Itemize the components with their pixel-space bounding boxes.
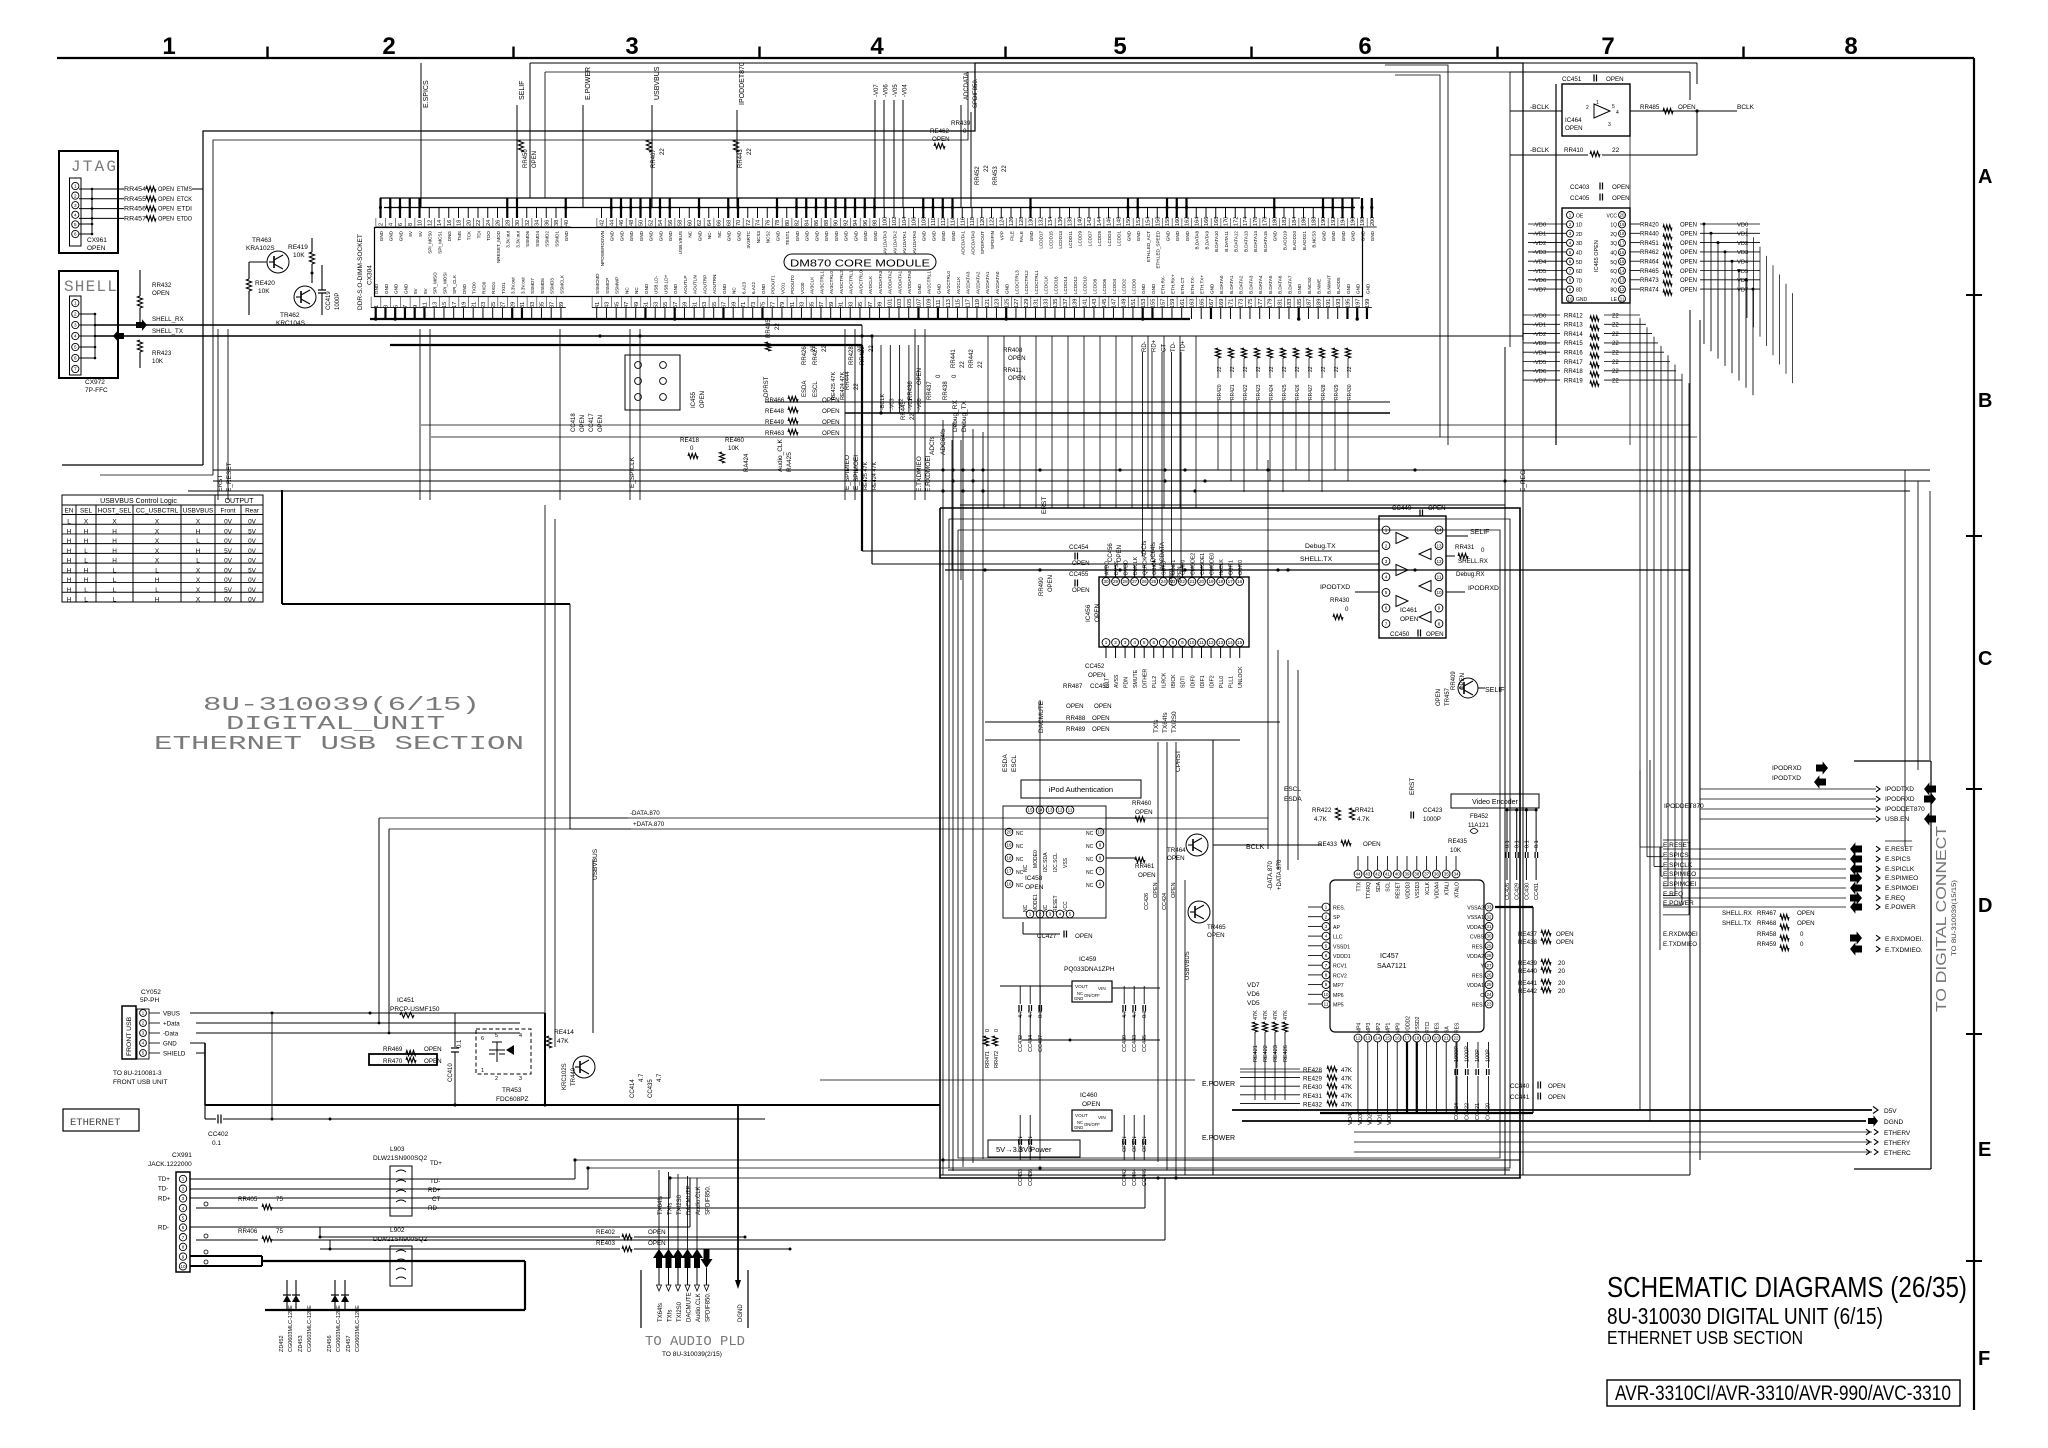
svg-text:141: 141 bbox=[1082, 299, 1088, 308]
svg-text:53: 53 bbox=[653, 302, 659, 308]
svg-text:40: 40 bbox=[564, 220, 570, 226]
svg-text:RE420: RE420 bbox=[255, 280, 275, 287]
svg-text:E.POWER: E.POWER bbox=[1202, 1081, 1235, 1088]
svg-text:NC: NC bbox=[1043, 904, 1049, 912]
svg-text:22: 22 bbox=[1612, 341, 1619, 347]
svg-text:4: 4 bbox=[1385, 574, 1388, 579]
svg-text:OPEN: OPEN bbox=[424, 1058, 442, 1065]
svg-text:IMCLK: IMCLK bbox=[1219, 559, 1225, 575]
svg-text:GND: GND bbox=[1029, 230, 1034, 241]
svg-text:1: 1 bbox=[1596, 100, 1599, 106]
svg-text:VD0: VD0 bbox=[1737, 222, 1748, 228]
svg-text:3: 3 bbox=[1385, 559, 1388, 564]
svg-text:122: 122 bbox=[990, 217, 996, 226]
svg-text:41: 41 bbox=[1385, 872, 1391, 877]
svg-text:84: 84 bbox=[804, 220, 810, 226]
svg-text:IC459: IC459 bbox=[1079, 956, 1097, 963]
svg-text:20: 20 bbox=[1199, 579, 1205, 584]
svg-text:GND: GND bbox=[1346, 283, 1351, 294]
transistor TR440 KRC102S bbox=[573, 1056, 595, 1078]
svg-text:DACMUTE: DACMUTE bbox=[687, 1292, 693, 1322]
svg-text:178: 178 bbox=[1263, 217, 1269, 226]
svg-text:18: 18 bbox=[1620, 231, 1625, 236]
svg-text:RR406: RR406 bbox=[238, 1228, 258, 1235]
svg-text:AV1DATA3: AV1DATA3 bbox=[883, 231, 888, 254]
svg-text:MP0: MP0 bbox=[1396, 1023, 1402, 1034]
svg-text:CX304: CX304 bbox=[367, 265, 374, 285]
svg-text:166: 166 bbox=[1204, 217, 1210, 226]
table USBVBUS Control Logic bbox=[62, 495, 263, 602]
svg-text:NC: NC bbox=[1023, 904, 1029, 912]
capacitor CC402 0.1 bbox=[217, 1115, 219, 1124]
svg-text:OPEN: OPEN bbox=[1092, 715, 1110, 722]
svg-text:43: 43 bbox=[605, 302, 611, 308]
svg-text:AVDDATA3: AVDDATA3 bbox=[878, 270, 883, 294]
svg-text:NC: NC bbox=[1016, 883, 1024, 889]
ic IC455 OPEN bbox=[625, 355, 680, 410]
wire center vertical bundle bbox=[942, 420, 944, 1175]
svg-text:E.SPIMIEO: E.SPIMIEO bbox=[1885, 875, 1918, 882]
svg-text:28: 28 bbox=[1123, 579, 1129, 584]
svg-text:0.1: 0.1 bbox=[457, 1039, 463, 1048]
svg-text:42: 42 bbox=[1375, 872, 1381, 877]
svg-text:TXD1: TXD1 bbox=[501, 282, 506, 294]
svg-text:-BCLK: -BCLK bbox=[1530, 147, 1550, 154]
svg-text:130: 130 bbox=[1029, 217, 1035, 226]
svg-text:2: 2 bbox=[382, 33, 395, 60]
svg-text:4: 4 bbox=[1616, 110, 1619, 116]
svg-text:14: 14 bbox=[1228, 640, 1234, 645]
svg-text:-DATA.870: -DATA.870 bbox=[630, 810, 660, 817]
svg-text:GND: GND bbox=[1370, 230, 1375, 241]
svg-text:29: 29 bbox=[510, 302, 516, 308]
svg-text:AVDCTRL2: AVDCTRL2 bbox=[839, 270, 844, 294]
svg-text:RD+: RD+ bbox=[158, 1195, 171, 1202]
svg-text:SSMD3: SSMD3 bbox=[550, 278, 555, 294]
svg-text:0V: 0V bbox=[224, 577, 233, 584]
svg-text:ESDA: ESDA bbox=[1284, 796, 1302, 803]
svg-text:RTCI: RTCI bbox=[1425, 1021, 1431, 1033]
svg-text:33: 33 bbox=[530, 302, 536, 308]
svg-text:0: 0 bbox=[1345, 606, 1349, 613]
svg-text:102: 102 bbox=[892, 217, 898, 226]
ic IC465 OPEN latch bbox=[1562, 208, 1630, 303]
svg-text:SP: SP bbox=[1333, 915, 1340, 921]
svg-text:IPODDET870: IPODDET870 bbox=[1664, 803, 1704, 810]
svg-text:-V04: -V04 bbox=[903, 84, 909, 97]
svg-text:22: 22 bbox=[960, 361, 966, 368]
svg-text:MP4: MP4 bbox=[1356, 1023, 1362, 1034]
svg-text:RR464: RR464 bbox=[1640, 260, 1659, 266]
svg-text:5: 5 bbox=[1612, 104, 1615, 110]
svg-text:VDDA2: VDDA2 bbox=[1467, 954, 1484, 960]
svg-text:NCS3: NCS3 bbox=[756, 231, 761, 244]
net DGND down arrow bbox=[737, 1105, 739, 1280]
svg-text:OPEN: OPEN bbox=[1092, 726, 1110, 733]
svg-text:RR438: RR438 bbox=[943, 381, 949, 400]
svg-text:42: 42 bbox=[600, 220, 606, 226]
svg-text:DVDD: DVDD bbox=[1123, 560, 1129, 575]
svg-text:-VD3: -VD3 bbox=[1533, 341, 1546, 347]
svg-text:CX991: CX991 bbox=[172, 1152, 192, 1159]
svg-text:OPEN: OPEN bbox=[1008, 355, 1026, 362]
svg-text:28: 28 bbox=[505, 220, 511, 226]
svg-text:RR488: RR488 bbox=[1066, 715, 1086, 722]
svg-text:B.DATA10: B.DATA10 bbox=[1214, 231, 1219, 252]
svg-text:147: 147 bbox=[1112, 299, 1118, 308]
svg-text:4.7K: 4.7K bbox=[1314, 816, 1328, 823]
svg-text:3: 3 bbox=[1608, 122, 1611, 128]
svg-text:GND: GND bbox=[1365, 283, 1370, 294]
svg-text:MODE1: MODE1 bbox=[1033, 894, 1039, 912]
svg-text:15: 15 bbox=[1620, 259, 1625, 264]
svg-text:GND: GND bbox=[1209, 283, 1214, 294]
svg-text:VD3: VD3 bbox=[1358, 1114, 1364, 1125]
svg-text:VD1: VD1 bbox=[1737, 232, 1748, 238]
svg-text:101: 101 bbox=[887, 299, 893, 308]
svg-text:B.DATA0: B.DATA0 bbox=[1219, 275, 1224, 294]
svg-text:GND: GND bbox=[619, 230, 624, 241]
svg-text:H: H bbox=[67, 538, 72, 545]
svg-text:TO AUDIO PLD: TO AUDIO PLD bbox=[645, 1334, 745, 1350]
svg-text:LCDCTRL1: LCDCTRL1 bbox=[1034, 270, 1039, 294]
svg-text:ESCL: ESCL bbox=[1011, 755, 1018, 772]
svg-text:L: L bbox=[113, 587, 117, 594]
svg-text:3Q: 3Q bbox=[1610, 241, 1617, 247]
svg-text:ETHERNET USB SECTION: ETHERNET USB SECTION bbox=[154, 733, 524, 755]
svg-text:X: X bbox=[196, 596, 201, 603]
svg-text:H: H bbox=[84, 528, 89, 535]
svg-text:IPODRXD: IPODRXD bbox=[1885, 796, 1915, 803]
svg-text:X: X bbox=[196, 577, 201, 584]
svg-text:B.DATA8: B.DATA8 bbox=[1195, 231, 1200, 250]
svg-text:22: 22 bbox=[1612, 332, 1619, 338]
svg-text:58: 58 bbox=[678, 220, 684, 226]
svg-text:5V: 5V bbox=[248, 528, 257, 535]
svg-text:RR471: RR471 bbox=[985, 1051, 991, 1068]
svg-text:15: 15 bbox=[1237, 640, 1243, 645]
svg-text:VD4: VD4 bbox=[1348, 1113, 1354, 1125]
svg-text:137: 137 bbox=[1063, 299, 1069, 308]
svg-text:GND: GND bbox=[564, 230, 569, 241]
svg-text:80: 80 bbox=[785, 220, 791, 226]
svg-text:E.TXDMIEO.: E.TXDMIEO. bbox=[1885, 947, 1923, 954]
wire ic459 rails bbox=[1000, 985, 1072, 987]
svg-text:VSSA1: VSSA1 bbox=[1467, 915, 1484, 921]
svg-text:IBICK: IBICK bbox=[1171, 674, 1177, 688]
svg-text:20: 20 bbox=[466, 220, 472, 226]
svg-text:176: 176 bbox=[1253, 217, 1259, 226]
svg-text:E.RESET: E.RESET bbox=[1663, 842, 1691, 849]
svg-text:GND: GND bbox=[1576, 297, 1588, 303]
wire E_POWER trunk bbox=[820, 1079, 1195, 1081]
svg-text:C: C bbox=[1978, 648, 1992, 670]
svg-text:OPEN: OPEN bbox=[1088, 672, 1106, 679]
svg-text:RR435: RR435 bbox=[766, 319, 772, 338]
svg-text:OPEN: OPEN bbox=[1797, 920, 1815, 927]
wire jtag to bus bbox=[192, 188, 203, 190]
svg-text:PLL2: PLL2 bbox=[1152, 676, 1158, 688]
svg-text:157: 157 bbox=[1160, 299, 1166, 308]
svg-text:+Data: +Data bbox=[163, 1021, 180, 1028]
svg-text:IDIF1: IDIF1 bbox=[1200, 675, 1206, 688]
svg-text:H: H bbox=[84, 538, 89, 545]
svg-text:5V: 5V bbox=[413, 287, 418, 294]
svg-text:CX972: CX972 bbox=[85, 379, 105, 386]
svg-text:1: 1 bbox=[74, 301, 77, 306]
svg-text:22: 22 bbox=[984, 165, 990, 172]
wire left rail to table zone bbox=[281, 490, 283, 604]
svg-text:Audio_CLK: Audio_CLK bbox=[777, 438, 784, 472]
svg-text:22: 22 bbox=[978, 361, 984, 368]
svg-text:RA425: RA425 bbox=[786, 452, 793, 472]
svg-text:KRA102S: KRA102S bbox=[246, 245, 275, 252]
svg-text:8Q: 8Q bbox=[1610, 288, 1617, 294]
svg-text:14: 14 bbox=[437, 220, 443, 226]
svg-text:TR464: TR464 bbox=[1167, 847, 1186, 854]
svg-text:RE425 47K: RE425 47K bbox=[831, 372, 837, 400]
svg-text:149: 149 bbox=[1121, 299, 1127, 308]
svg-text:GND: GND bbox=[374, 283, 379, 294]
resistor RR432 OPEN bbox=[139, 270, 141, 296]
svg-text:43: 43 bbox=[1365, 872, 1371, 877]
svg-text:7: 7 bbox=[1601, 33, 1614, 60]
svg-text:FRONT USB UNIT: FRONT USB UNIT bbox=[113, 1079, 167, 1086]
svg-text:47K: 47K bbox=[1341, 1067, 1353, 1074]
svg-text:128: 128 bbox=[1019, 217, 1025, 226]
svg-text:AV1DATA2: AV1DATA2 bbox=[892, 231, 897, 254]
svg-text:156: 156 bbox=[1155, 217, 1161, 226]
svg-text:Front: Front bbox=[221, 508, 236, 515]
transistor TR462 KRC104S bbox=[294, 286, 316, 308]
svg-text:MP2: MP2 bbox=[1376, 1023, 1382, 1034]
svg-text:AV2CTRL0: AV2CTRL0 bbox=[946, 271, 951, 294]
wire SHELL_RX long bbox=[95, 324, 862, 326]
svg-text:B.NWE: B.NWE bbox=[1317, 279, 1322, 294]
wire debug bundle verticals bbox=[951, 440, 953, 570]
svg-text:ETHERNET: ETHERNET bbox=[70, 1117, 120, 1129]
svg-text:VOUT: VOUT bbox=[1075, 1113, 1088, 1118]
svg-text:135: 135 bbox=[1053, 299, 1059, 308]
svg-text:H: H bbox=[155, 577, 160, 584]
svg-text:LCDD14: LCDD14 bbox=[1063, 276, 1068, 294]
svg-text:0: 0 bbox=[1800, 931, 1804, 938]
svg-text:OPEN: OPEN bbox=[700, 391, 706, 408]
svg-text:FILE: FILE bbox=[1009, 231, 1014, 241]
wire vbus bbox=[190, 1012, 455, 1014]
svg-text:GND: GND bbox=[629, 230, 634, 241]
svg-text:96: 96 bbox=[863, 220, 869, 226]
svg-text:E_SPIMOEI: E_SPIMOEI bbox=[853, 455, 860, 490]
svg-text:OPEN: OPEN bbox=[158, 196, 174, 203]
svg-text:18: 18 bbox=[1414, 1036, 1420, 1041]
svg-text:OBIT1: OBIT1 bbox=[1228, 560, 1234, 575]
svg-text:RR456: RR456 bbox=[124, 206, 147, 213]
svg-text:69: 69 bbox=[731, 302, 737, 308]
svg-text:B: B bbox=[1978, 390, 1992, 412]
svg-text:E.REQ: E.REQ bbox=[1663, 891, 1683, 898]
svg-text:MP3: MP3 bbox=[1366, 1023, 1372, 1034]
svg-text:6.A23: 6.A23 bbox=[741, 282, 746, 294]
wire top loop outer bbox=[203, 63, 1523, 340]
wire esda escl erst drops to video bbox=[1277, 650, 1279, 870]
svg-text:IPODRXD: IPODRXD bbox=[1468, 585, 1499, 592]
svg-text:60: 60 bbox=[687, 220, 693, 226]
svg-text:IC461: IC461 bbox=[1400, 607, 1418, 614]
svg-text:23: 23 bbox=[1486, 1002, 1492, 1007]
svg-text:71: 71 bbox=[741, 302, 747, 308]
svg-text:134: 134 bbox=[1048, 217, 1054, 226]
svg-text:17: 17 bbox=[1006, 869, 1012, 874]
svg-text:28: 28 bbox=[1486, 953, 1492, 958]
svg-text:10K: 10K bbox=[152, 358, 164, 365]
svg-text:VDDA1: VDDA1 bbox=[1467, 983, 1484, 989]
svg-text:NC: NC bbox=[717, 230, 722, 237]
label iPod Authentication bbox=[1021, 780, 1141, 798]
svg-text:RE439: RE439 bbox=[1518, 960, 1537, 967]
svg-text:10K: 10K bbox=[293, 252, 305, 259]
svg-text:VPP: VPP bbox=[1000, 231, 1005, 240]
svg-text:LCDD2: LCDD2 bbox=[1122, 278, 1127, 294]
svg-text:13: 13 bbox=[1365, 1036, 1371, 1041]
svg-text:GND: GND bbox=[795, 230, 800, 241]
svg-text:IC451: IC451 bbox=[397, 997, 415, 1004]
svg-text:X: X bbox=[196, 587, 201, 594]
svg-text:LCDD1: LCDD1 bbox=[1117, 231, 1122, 247]
svg-text:RD-: RD- bbox=[158, 1225, 169, 1232]
svg-text:13: 13 bbox=[1047, 808, 1053, 813]
svg-text:VDDD3: VDDD3 bbox=[1405, 882, 1411, 899]
svg-text:4.7: 4.7 bbox=[639, 1073, 645, 1082]
svg-text:4: 4 bbox=[74, 212, 77, 217]
svg-text:16: 16 bbox=[1395, 1036, 1401, 1041]
svg-text:164: 164 bbox=[1194, 217, 1200, 226]
ic IC461 OPEN bbox=[1379, 516, 1446, 638]
svg-text:B.DATA2: B.DATA2 bbox=[1239, 275, 1244, 294]
svg-text:X: X bbox=[155, 528, 160, 535]
svg-text:X: X bbox=[196, 567, 201, 574]
svg-text:DGND: DGND bbox=[1884, 1119, 1903, 1126]
svg-text:VD7: VD7 bbox=[1737, 287, 1748, 293]
svg-text:RXD1: RXD1 bbox=[491, 281, 496, 294]
svg-text:GND: GND bbox=[951, 230, 956, 241]
svg-text:USB.EN: USB.EN bbox=[1885, 816, 1910, 823]
svg-text:OPEN: OPEN bbox=[1363, 841, 1381, 848]
svg-text:6.A22: 6.A22 bbox=[751, 282, 756, 294]
svg-text:GND: GND bbox=[1185, 230, 1190, 241]
svg-text:77: 77 bbox=[770, 302, 776, 308]
wire y505 bus bbox=[960, 504, 1505, 506]
svg-text:CC453: CC453 bbox=[1090, 683, 1110, 690]
svg-text:RR431: RR431 bbox=[1455, 544, 1475, 551]
svg-text:81: 81 bbox=[790, 302, 796, 308]
svg-text:RR452: RR452 bbox=[975, 166, 981, 185]
svg-text:9: 9 bbox=[1181, 640, 1184, 645]
svg-text:RR468: RR468 bbox=[1757, 920, 1777, 927]
svg-text:RR414: RR414 bbox=[1564, 332, 1583, 338]
svg-text:22: 22 bbox=[476, 220, 482, 226]
svg-text:16: 16 bbox=[447, 220, 453, 226]
svg-text:ILRCK: ILRCK bbox=[1162, 672, 1168, 688]
svg-text:124: 124 bbox=[999, 217, 1005, 226]
svg-text:47: 47 bbox=[624, 302, 630, 308]
svg-text:GND: GND bbox=[697, 230, 702, 241]
svg-text:B.DATA13: B.DATA13 bbox=[1243, 231, 1248, 252]
svg-text:OPEN: OPEN bbox=[648, 1240, 666, 1247]
svg-text:RE440: RE440 bbox=[1518, 968, 1537, 975]
svg-text:-VD2: -VD2 bbox=[1533, 332, 1546, 338]
svg-text:22: 22 bbox=[1612, 313, 1619, 319]
svg-text:8: 8 bbox=[1172, 640, 1175, 645]
svg-text:4Q: 4Q bbox=[1610, 251, 1617, 257]
wire shell pins bbox=[79, 313, 95, 315]
svg-text:17: 17 bbox=[452, 302, 458, 308]
svg-text:3V3RTC: 3V3RTC bbox=[746, 230, 751, 248]
svg-text:RR423: RR423 bbox=[1256, 384, 1262, 400]
svg-text:16: 16 bbox=[1237, 579, 1243, 584]
svg-text:RA424: RA424 bbox=[744, 453, 750, 472]
svg-text:145: 145 bbox=[1102, 299, 1108, 308]
svg-text:129: 129 bbox=[1024, 299, 1030, 308]
svg-text:1: 1 bbox=[182, 1177, 185, 1182]
svg-text:188: 188 bbox=[1311, 217, 1317, 226]
svg-text:IDIF0: IDIF0 bbox=[1190, 675, 1196, 688]
svg-text:4: 4 bbox=[519, 1033, 522, 1039]
svg-text:22: 22 bbox=[1612, 360, 1619, 366]
svg-text:186: 186 bbox=[1302, 217, 1308, 226]
svg-text:OPEN: OPEN bbox=[1565, 125, 1583, 132]
svg-text:110: 110 bbox=[931, 217, 937, 226]
wire top label drops bbox=[420, 110, 422, 207]
svg-text:OPEN: OPEN bbox=[1135, 809, 1153, 816]
svg-text:47K: 47K bbox=[1341, 1076, 1353, 1083]
svg-text:GND: GND bbox=[873, 230, 878, 241]
svg-text:3.3V.out: 3.3V.out bbox=[520, 277, 525, 294]
svg-text:VDDD2: VDDD2 bbox=[1405, 1016, 1411, 1033]
svg-text:ESDA: ESDA bbox=[1002, 754, 1009, 772]
svg-text:E.TXDMIEO: E.TXDMIEO bbox=[1663, 941, 1697, 948]
svg-text:13: 13 bbox=[1218, 640, 1224, 645]
svg-text:AVDDATA1: AVDDATA1 bbox=[897, 270, 902, 294]
svg-text:40: 40 bbox=[1395, 872, 1401, 877]
wire +data bbox=[196, 1022, 520, 1024]
svg-text:75: 75 bbox=[276, 1228, 283, 1235]
svg-text:VDDA3: VDDA3 bbox=[1467, 925, 1484, 931]
svg-text:199: 199 bbox=[1365, 299, 1371, 308]
svg-text:34: 34 bbox=[1453, 872, 1459, 877]
connector CX961 JTAG bbox=[59, 151, 118, 253]
svg-text:E.RXDMOEI.: E.RXDMOEI. bbox=[1885, 936, 1923, 943]
svg-text:7: 7 bbox=[1385, 621, 1388, 626]
svg-text:L: L bbox=[84, 587, 88, 594]
svg-text:B.DATA15: B.DATA15 bbox=[1263, 231, 1268, 252]
wire top lines to ic464 bbox=[1523, 62, 1697, 64]
svg-text:LCDD4: LCDD4 bbox=[1112, 278, 1117, 294]
svg-text:47K: 47K bbox=[1263, 1010, 1269, 1020]
svg-text:I2C.SCL: I2C.SCL bbox=[1053, 853, 1059, 872]
svg-text:126: 126 bbox=[1009, 217, 1015, 226]
svg-text:38: 38 bbox=[554, 220, 560, 226]
svg-text:B.NWAIT: B.NWAIT bbox=[1326, 275, 1331, 294]
svg-text:OE: OE bbox=[1576, 213, 1584, 219]
svg-text:10: 10 bbox=[1323, 992, 1329, 997]
svg-text:H: H bbox=[196, 528, 201, 535]
svg-text:SSMD5: SSMD5 bbox=[540, 278, 545, 294]
wire nested rects top right bbox=[1385, 65, 1448, 445]
svg-text:0V: 0V bbox=[248, 519, 257, 526]
svg-text:11A121: 11A121 bbox=[1468, 822, 1489, 829]
svg-text:3.3V.out: 3.3V.out bbox=[515, 230, 520, 247]
